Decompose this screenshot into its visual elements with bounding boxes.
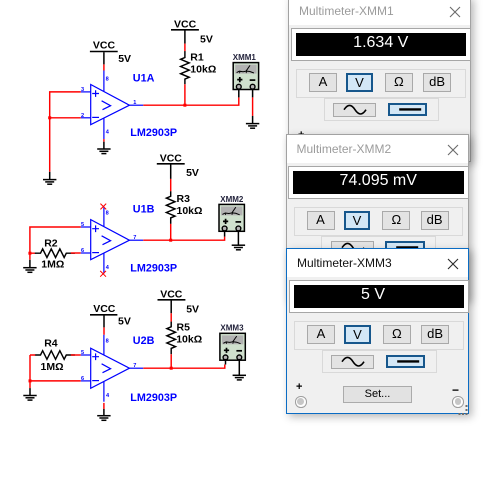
resistor R3 — [166, 191, 175, 224]
svg-text:5V: 5V — [186, 167, 199, 179]
wire VCC to R5 — [170, 313, 172, 322]
svg-text:1MΩ: 1MΩ — [41, 361, 64, 373]
pin + of XMM2 — [224, 230, 226, 236]
svg-text:XMM2: XMM2 — [220, 195, 244, 204]
resistor R5 — [167, 322, 176, 355]
svg-text:VCC: VCC — [160, 153, 183, 165]
ground (XMM3) — [233, 375, 246, 380]
resistor R2 — [35, 249, 75, 258]
ground (U2B rail) — [23, 388, 36, 400]
wire U1B + input to left rail — [30, 227, 81, 260]
resistor R4 — [35, 351, 75, 360]
svg-text:6: 6 — [81, 376, 84, 382]
ground (XMM1) — [246, 116, 259, 128]
multimeter icon XMM3 — [220, 333, 245, 360]
wire R1 to output node — [184, 84, 186, 106]
wire U1A pin 4 to ground — [103, 139, 105, 142]
svg-text:LM2903P: LM2903P — [130, 262, 177, 274]
wire U2B output to XMM3 — [143, 365, 225, 369]
wire VCC to R1 — [184, 44, 186, 52]
svg-text:VCC: VCC — [93, 40, 116, 52]
wire U1A - input to left rail — [50, 117, 81, 119]
pin - of XMM2 — [237, 230, 239, 245]
svg-text:5V: 5V — [118, 315, 131, 327]
multimeter window XMM2 — [286, 134, 469, 300]
junction (R2/rail) — [28, 252, 31, 255]
wire left rail (R4/U2B -) — [30, 355, 81, 388]
svg-text:5: 5 — [81, 222, 84, 228]
svg-text:VCC: VCC — [160, 289, 183, 301]
svg-text:1: 1 — [133, 100, 136, 106]
svg-text:5: 5 — [81, 350, 84, 356]
ground (U1A input rail) — [43, 172, 56, 184]
svg-text:1MΩ: 1MΩ — [41, 259, 64, 271]
svg-text:4: 4 — [106, 130, 110, 136]
pin + of XMM3 — [225, 359, 227, 365]
wire XMM1 - to ground — [252, 97, 254, 116]
svg-text:VCC: VCC — [93, 303, 116, 315]
power VCC symbol (R3) — [157, 153, 185, 179]
op-amp U2B — [81, 335, 144, 402]
svg-text:6: 6 — [81, 248, 84, 254]
svg-text:4: 4 — [106, 393, 110, 399]
svg-text:LM2903P: LM2903P — [130, 127, 177, 139]
svg-text:7: 7 — [133, 363, 136, 369]
ground (U1B rail) — [23, 260, 36, 273]
svg-text:LM2903P: LM2903P — [130, 392, 177, 404]
no-connect X (U1B pin 4) — [100, 271, 106, 277]
junction (rail/- input) — [29, 379, 32, 382]
ground (XMM2) — [232, 245, 245, 250]
pin - of XMM3 — [238, 359, 240, 375]
svg-text:R3: R3 — [177, 193, 191, 205]
op-amp U1A — [81, 71, 144, 140]
wire U1A + input to left rail — [50, 92, 81, 172]
power VCC symbol (R5) — [158, 289, 186, 314]
ground (U2B pin 4) — [97, 409, 110, 420]
wire U2B pin 4 to ground — [103, 403, 105, 409]
wire R2 to U1B - input — [71, 252, 81, 254]
svg-text:VCC: VCC — [174, 19, 197, 31]
wire U1A output to XMM1 — [143, 97, 239, 105]
svg-text:R5: R5 — [177, 322, 191, 334]
svg-text:10kΩ: 10kΩ — [177, 205, 203, 217]
resistor R1 — [181, 51, 190, 84]
wire R4 to U2B + input — [71, 354, 81, 356]
wire U1B output to XMM2 — [143, 237, 224, 241]
wire R5 to output node — [170, 354, 172, 369]
svg-text:5V: 5V — [118, 53, 131, 65]
power VCC symbol (U1A pin 8) — [90, 40, 118, 65]
multimeter icon XMM1 — [233, 63, 258, 90]
wire VCC to U2B pin 8 — [103, 327, 105, 334]
svg-text:5V: 5V — [200, 34, 213, 46]
power VCC symbol (R1) — [171, 19, 199, 44]
svg-text:8: 8 — [106, 77, 109, 83]
svg-text:2: 2 — [81, 113, 84, 119]
svg-text:10kΩ: 10kΩ — [176, 333, 202, 345]
svg-text:U2B: U2B — [133, 335, 155, 347]
svg-text:U1A: U1A — [133, 72, 155, 84]
ground (U1A pin 4) — [97, 142, 110, 154]
svg-text:R1: R1 — [190, 51, 204, 63]
op-amp U1B — [81, 207, 144, 274]
no-connect X (U1B pin 8) — [100, 204, 106, 210]
svg-text:8: 8 — [106, 211, 109, 217]
svg-text:10kΩ: 10kΩ — [190, 64, 216, 76]
svg-text:U1B: U1B — [133, 203, 155, 215]
junction (inputs tie) — [48, 116, 51, 119]
junction node (R5/output) — [170, 367, 173, 370]
junction node (R3/output) — [169, 239, 172, 242]
wire VCC to R3 — [170, 179, 172, 191]
svg-text:XMM3: XMM3 — [220, 324, 244, 333]
junction node (R1/output) — [183, 104, 186, 107]
pin - of XMM1 — [252, 89, 254, 98]
multimeter window XMM1 — [288, 0, 471, 162]
svg-text:R2: R2 — [44, 238, 58, 250]
svg-text:R4: R4 — [44, 338, 58, 350]
wire VCC to U1A pin 8 — [103, 64, 105, 70]
pin + of XMM1 — [238, 89, 240, 98]
svg-text:3: 3 — [81, 87, 84, 93]
svg-text:7: 7 — [133, 235, 136, 241]
svg-text:4: 4 — [106, 265, 110, 271]
svg-text:5V: 5V — [186, 304, 199, 316]
svg-text:8: 8 — [106, 339, 109, 345]
power VCC symbol (U2B pin 8) — [90, 303, 117, 327]
wire R3 to output node — [170, 224, 172, 241]
multimeter icon XMM2 — [219, 204, 244, 231]
svg-text:XMM1: XMM1 — [233, 53, 257, 62]
multimeter window XMM3 (active) — [286, 248, 469, 414]
